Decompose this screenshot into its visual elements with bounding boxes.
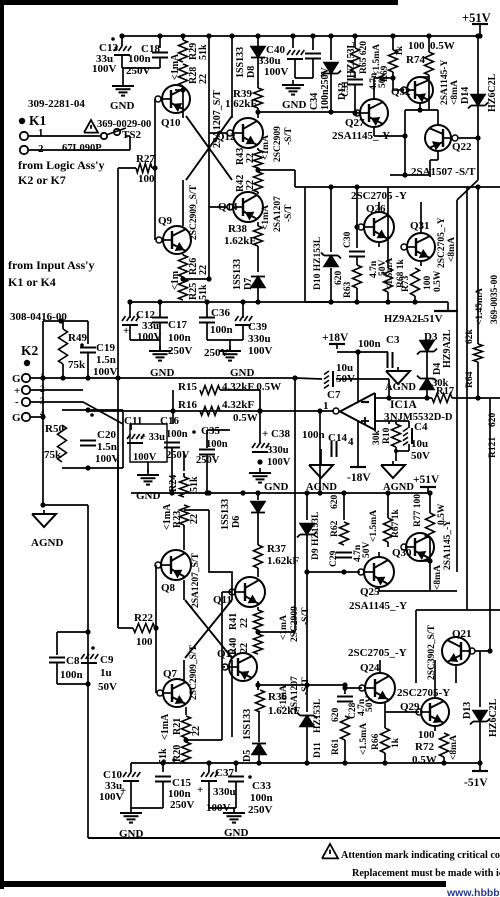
wire C16 down <box>171 448 173 493</box>
wire box bottom <box>305 301 448 303</box>
wire Q14 base <box>209 206 227 208</box>
wire R25 tap <box>183 278 209 280</box>
capacitor C8 <box>49 657 65 659</box>
wire Q32 emitter down <box>419 103 421 110</box>
attention mark triangle <box>322 844 338 858</box>
svg-text:+ 33u: + 33u <box>140 432 165 443</box>
wire X to Q9 col <box>182 180 184 226</box>
wire R74 bottom <box>428 75 430 77</box>
svg-text:100n: 100n <box>302 429 325 441</box>
wire K1 pin1 to TS2 <box>28 135 100 137</box>
resistor R15 <box>200 386 220 395</box>
svg-text:620: 620 <box>488 413 498 428</box>
svg-text:<1m: <1m <box>170 270 181 290</box>
svg-text:2SC2909_S/T: 2SC2909_S/T <box>189 184 199 240</box>
wire Q30 emitter node <box>420 560 430 562</box>
wire C19 top <box>87 321 89 344</box>
svg-text:50V: 50V <box>411 450 430 462</box>
wire C10/C15 join <box>131 807 163 809</box>
wire to GND <box>122 68 124 81</box>
wire +18V to C3 <box>337 351 388 353</box>
wire to C4 top <box>389 420 409 422</box>
svg-text:HZ9A2L: HZ9A2L <box>442 329 453 368</box>
transistor Q22 <box>425 125 451 151</box>
transistor Q31 <box>407 233 435 261</box>
wire box to -51V <box>447 302 449 310</box>
wire R74 to node <box>428 77 430 110</box>
resistor R49 <box>59 329 68 364</box>
svg-text:100V: 100V <box>264 66 289 78</box>
svg-text:2SC2705_-Y: 2SC2705_-Y <box>348 647 407 659</box>
wire Q27 down <box>373 127 375 136</box>
wire R39 to Q12 <box>257 108 259 118</box>
zener D11 HZ153L <box>297 713 317 727</box>
wire R24 top <box>183 473 185 477</box>
svg-text:2SC2705-Y: 2SC2705-Y <box>397 687 450 699</box>
svg-text:100n: 100n <box>210 324 233 336</box>
wire left vertical x43 <box>42 321 44 505</box>
capacitor C33 <box>228 776 244 778</box>
svg-text:67L090P: 67L090P <box>62 143 102 154</box>
capacitor C39 <box>235 316 252 325</box>
svg-text:2SC2705_-Y: 2SC2705_-Y <box>437 217 447 268</box>
transistor Q21 <box>442 637 470 665</box>
wire R37 to Q11 <box>257 568 259 577</box>
wire C34 top <box>312 36 314 50</box>
zener D14 <box>468 95 488 109</box>
svg-text:C34: C34 <box>309 93 320 110</box>
svg-text:GND: GND <box>224 827 249 839</box>
capacitor C37 <box>201 772 218 781</box>
svg-text:100n: 100n <box>128 53 151 65</box>
svg-text:250V: 250V <box>168 345 193 357</box>
svg-text:GND: GND <box>282 99 307 111</box>
resistor R22 <box>133 624 155 633</box>
wire R64 bottom <box>477 362 479 398</box>
wire bias vertical <box>208 36 210 279</box>
wire to R17 <box>389 397 432 399</box>
capacitor C36 <box>199 317 215 319</box>
svg-text:1: 1 <box>38 127 44 139</box>
wire D13 top <box>479 651 481 707</box>
svg-text:100V: 100V <box>267 457 291 468</box>
svg-text:22: 22 <box>239 643 250 653</box>
transistor Q10 <box>162 85 190 113</box>
capacitor C7 <box>324 371 333 388</box>
wire C10 top <box>130 763 132 772</box>
svg-text:Q26: Q26 <box>366 203 386 215</box>
resistor R41 <box>254 610 263 630</box>
svg-text:22: 22 <box>239 618 250 628</box>
wire R24 up <box>183 452 185 471</box>
wire Q31 collector <box>420 202 422 233</box>
wire X down <box>231 660 233 737</box>
capacitor C13 <box>114 46 131 55</box>
svg-text:100: 100 <box>408 40 425 52</box>
wire node Q32/Q22 <box>405 109 438 111</box>
wire cell4 top rail <box>258 684 345 686</box>
svg-text:D13: D13 <box>462 702 473 719</box>
base circle Q10 <box>155 96 161 102</box>
wire to x457 <box>430 590 457 592</box>
svg-text:22: 22 <box>198 265 209 275</box>
svg-text:Q8: Q8 <box>161 582 176 594</box>
svg-text:R64: R64 <box>465 371 475 388</box>
analog ground AGND R10 <box>381 461 405 478</box>
svg-text:22: 22 <box>245 153 256 163</box>
wire x209 down to X <box>209 510 232 600</box>
wire R77 top <box>429 493 431 513</box>
capacitor C30 <box>349 251 365 253</box>
ground below C12/C17 <box>149 346 171 361</box>
zener D9 HZ153L <box>297 524 317 538</box>
svg-text:Q7: Q7 <box>163 668 178 680</box>
wire C36/C39 join <box>207 339 243 341</box>
wire to Q22 collector <box>437 110 439 125</box>
svg-text:2SA1507 -S/T: 2SA1507 -S/T <box>411 166 476 178</box>
svg-text:R16: R16 <box>178 399 197 411</box>
resistor R16 <box>200 407 220 416</box>
svg-text:330u: 330u <box>267 445 289 456</box>
wire to GND 2 <box>229 340 231 350</box>
svg-text:GND: GND <box>119 828 144 840</box>
base circle Q11 <box>229 589 235 595</box>
svg-text:AGND: AGND <box>31 537 63 549</box>
svg-text:<8mA: <8mA <box>450 80 460 105</box>
terminal K1 pin2 <box>20 146 28 154</box>
wire C12/C17 join <box>130 339 160 341</box>
svg-text:Attention mark indicating crit: Attention mark indicating critical com <box>341 850 500 861</box>
svg-text:K1 or K4: K1 or K4 <box>8 275 56 289</box>
resistor R43 <box>254 150 263 168</box>
svg-text:R15: R15 <box>178 381 197 393</box>
wire Q31 emitter <box>420 261 422 266</box>
wire R10 bottom <box>395 447 397 451</box>
wire C40 top <box>292 36 294 48</box>
svg-text:C29: C29 <box>329 550 339 567</box>
wire C13 top <box>121 36 123 46</box>
wire Q24 emitter to R66 <box>384 703 386 728</box>
svg-text:4.32kF: 4.32kF <box>222 399 254 411</box>
wire TS2 out <box>129 136 131 150</box>
svg-text:+ C38: + C38 <box>262 428 290 440</box>
svg-text:R73: R73 <box>401 275 411 292</box>
svg-text:C9: C9 <box>100 654 114 666</box>
wire D12 top <box>330 36 332 60</box>
wire R27 left <box>118 167 136 169</box>
svg-text:K2: K2 <box>21 343 39 358</box>
wire D4 to out line <box>426 390 428 398</box>
wire Q29 emitter <box>434 726 436 731</box>
svg-text:TS2: TS2 <box>122 129 141 141</box>
diode D14 HZ6C2L <box>477 36 479 94</box>
transistor Q27 <box>360 99 388 127</box>
capacitor C20 <box>80 440 96 442</box>
wire output to right <box>452 397 500 399</box>
zener D10 HZ153L <box>321 253 341 267</box>
svg-text:100n: 100n <box>206 439 228 450</box>
svg-text:HZ9A2L: HZ9A2L <box>384 314 424 325</box>
power -18V <box>350 466 366 468</box>
resistor R26 <box>179 255 188 277</box>
capacitor C38 <box>252 443 269 452</box>
base circle Q26 <box>358 224 364 230</box>
wire C31 to Q27 <box>355 112 360 114</box>
wire R72 bottom <box>443 757 445 763</box>
svg-text:C11: C11 <box>124 415 142 427</box>
node +51V rail right <box>477 33 482 38</box>
wire D10 top <box>330 187 332 252</box>
svg-text:C35: C35 <box>201 425 220 437</box>
wire Q27 emitter right <box>374 135 405 137</box>
capacitor C31 <box>347 79 363 81</box>
svg-text:22: 22 <box>245 180 256 190</box>
wire Q21 box left <box>415 610 417 683</box>
svg-text:Q25: Q25 <box>360 586 380 598</box>
wire - in <box>30 401 70 403</box>
svg-text:75k: 75k <box>44 449 62 461</box>
wire to lower rail <box>319 411 321 493</box>
resistor R24 <box>180 477 189 497</box>
label plus <box>361 420 369 422</box>
wire R67 to Q30 base <box>387 542 389 547</box>
capacitor C18 <box>152 52 168 54</box>
switch contact 2 <box>114 129 120 135</box>
wire Q11 base left <box>222 591 232 593</box>
svg-text:2SA1145_-Y: 2SA1145_-Y <box>349 600 407 612</box>
svg-text:100n: 100n <box>358 338 381 350</box>
svg-text:D5: D5 <box>242 750 253 762</box>
wire Q25 emitter down <box>379 587 430 591</box>
base circle Q27 <box>354 110 360 116</box>
wire R68 <box>387 247 389 268</box>
resistor R69 <box>389 50 398 72</box>
svg-text:100: 100 <box>136 636 153 648</box>
wire vertical x457 <box>456 200 458 572</box>
svg-text:51k: 51k <box>198 44 209 60</box>
wire Q25 collector <box>378 552 380 557</box>
svg-text:10u: 10u <box>411 438 428 450</box>
base circle Q8 <box>155 562 161 568</box>
svg-text:-S/T: -S/T <box>301 607 311 625</box>
wire R15 box left <box>172 390 174 411</box>
wire R10/C4 bottom <box>396 450 409 452</box>
transistor Q29 <box>421 698 449 726</box>
capacitor C40 <box>287 50 304 59</box>
svg-text:2SA1207: 2SA1207 <box>273 196 283 232</box>
wire C35 top <box>206 430 208 448</box>
base circle Q30 <box>401 544 407 550</box>
wire + in <box>30 389 83 391</box>
svg-text:51k: 51k <box>198 284 209 300</box>
wire bottom rail left <box>131 762 259 764</box>
svg-text:2SA1145_-Y: 2SA1145_-Y <box>443 520 453 570</box>
base circle Q24 <box>359 685 365 691</box>
terminal K2 G2 <box>22 413 30 421</box>
diode D6 1SS133 <box>251 502 265 513</box>
wire C12 box left <box>129 302 131 318</box>
svg-text:2SC2909: 2SC2909 <box>273 126 283 162</box>
wire Q21 box top <box>416 609 500 611</box>
wire Q12 node to Q27 base <box>258 111 355 113</box>
svg-text:R40: R40 <box>228 638 239 655</box>
analog ground AGND left <box>32 510 56 527</box>
svg-text:D9 HZ153L: D9 HZ153L <box>311 512 321 560</box>
svg-text:100n: 100n <box>168 332 191 344</box>
svg-text:C30: C30 <box>343 231 353 248</box>
svg-text:G: G <box>12 412 21 424</box>
transistor Q32 <box>407 77 433 103</box>
wire C7 to inv node <box>336 378 389 380</box>
svg-text:2SC2909: 2SC2909 <box>290 606 300 642</box>
svg-text:<1.5mA: <1.5mA <box>359 723 369 755</box>
wire R74 top <box>428 36 430 52</box>
wire D6 top <box>257 493 259 500</box>
power +18V <box>329 344 345 349</box>
diode D5 1SS133 <box>252 744 266 755</box>
svg-text:4.32kF 0.5W: 4.32kF 0.5W <box>222 381 281 393</box>
svg-text:100n: 100n <box>250 792 273 804</box>
wire base column x155 <box>154 99 156 240</box>
wire Q8 to X <box>183 580 185 600</box>
svg-text:R63: R63 <box>343 281 353 298</box>
svg-text:100n: 100n <box>60 669 83 681</box>
zener D12 HZ153L <box>321 63 341 77</box>
svg-text:+51V: +51V <box>413 474 440 486</box>
svg-text:75k: 75k <box>68 359 86 371</box>
svg-text:2SC2705 -Y: 2SC2705 -Y <box>351 190 407 202</box>
diode D8 1SS133 <box>251 47 265 58</box>
svg-text:620: 620 <box>331 708 341 723</box>
svg-text:-51V: -51V <box>420 313 443 325</box>
svg-text:R66: R66 <box>371 733 381 750</box>
svg-text:G: G <box>12 373 21 385</box>
svg-text:C8: C8 <box>66 655 80 667</box>
svg-text:Q10: Q10 <box>161 117 181 129</box>
wire to R10 <box>388 421 390 424</box>
ground below C40 <box>282 80 304 95</box>
wire to Q25 base node <box>307 571 344 573</box>
svg-text:<1mA: <1mA <box>279 615 289 640</box>
wire R62 top <box>343 493 345 520</box>
resistor R65 <box>351 48 360 72</box>
capacitor C3 <box>387 352 389 368</box>
svg-text:R77 100: R77 100 <box>413 494 423 527</box>
resistor R23 <box>180 505 189 525</box>
resistor R67 <box>384 518 393 542</box>
wire D5 bottom <box>258 755 260 763</box>
svg-text:R38: R38 <box>228 223 247 235</box>
transistor Q25 <box>364 557 394 587</box>
base circle Q29 <box>416 709 422 715</box>
svg-text:1.5n: 1.5n <box>97 441 117 453</box>
svg-text:100V: 100V <box>95 453 120 465</box>
svg-text:250V: 250V <box>126 65 151 77</box>
wire Q11 node to x295 <box>258 631 295 633</box>
wire Q24 collector up <box>379 660 381 673</box>
wire C30 top <box>356 187 358 248</box>
svg-text:Q27: Q27 <box>345 117 365 129</box>
svg-text:R41: R41 <box>228 613 239 630</box>
svg-text:100n: 100n <box>166 429 188 440</box>
svg-text:HZ6C2L: HZ6C2L <box>487 73 498 112</box>
base circle Q14 <box>227 204 233 210</box>
diode D7 1SS133 <box>251 277 265 288</box>
resistor R66 <box>381 728 390 753</box>
svg-text:C16: C16 <box>160 415 179 427</box>
svg-text:100: 100 <box>418 729 435 741</box>
transistor Q8 <box>161 550 191 580</box>
wire Q22 base right <box>458 137 478 139</box>
transistor Q24 <box>365 673 395 703</box>
svg-text:C4: C4 <box>414 421 428 433</box>
wire D9 top <box>306 493 308 520</box>
resistor R68 <box>384 268 393 292</box>
svg-text:-S/T: -S/T <box>284 204 294 222</box>
resistor R28 <box>179 64 188 86</box>
svg-text:<1mA: <1mA <box>170 53 181 80</box>
resistor R77 <box>426 513 435 538</box>
wire Q27 top rail <box>374 77 393 79</box>
box driver cell 2SC2705-Y <box>304 187 306 302</box>
svg-text:R69: R69 <box>380 65 390 82</box>
resistor R10 <box>392 424 401 447</box>
svg-text:Q21: Q21 <box>452 628 472 640</box>
wire to +51V <box>479 24 481 36</box>
wire R68 top <box>387 187 389 240</box>
power +51V cell3 <box>420 487 436 493</box>
wire C37 top <box>208 763 210 772</box>
svg-text:R22: R22 <box>134 612 153 624</box>
wire Q12 base <box>209 132 227 134</box>
resistor R27 <box>136 164 152 173</box>
wire inv input <box>375 397 389 399</box>
resistor R17 <box>432 394 452 403</box>
svg-text:1.62kF: 1.62kF <box>225 98 257 110</box>
analog ground AGND C14 <box>309 461 333 478</box>
resistor R37 <box>254 545 263 568</box>
wire C35 top <box>207 429 230 431</box>
wire R50 box top <box>62 409 123 411</box>
wire x118 vertical <box>117 460 119 625</box>
wire X to Q7 <box>183 660 185 680</box>
svg-text:250V: 250V <box>166 450 190 461</box>
svg-text:D10 HZ153L: D10 HZ153L <box>313 237 323 290</box>
wire R73 bottom <box>414 296 416 302</box>
wire C35 down <box>206 455 208 493</box>
wire C17 box right <box>159 302 161 317</box>
capacitor C14 <box>331 441 333 457</box>
wire D12 bottom <box>330 74 332 112</box>
wire C15 top <box>162 763 164 772</box>
capacitor C4 <box>403 428 412 445</box>
wire tap <box>184 509 209 511</box>
wire x405 vertical <box>404 110 406 175</box>
svg-text:2: 2 <box>38 143 44 155</box>
capacitor C15 <box>155 776 171 778</box>
transistor Q9 <box>163 226 191 254</box>
svg-text:C19: C19 <box>96 342 115 354</box>
svg-text:D8: D8 <box>246 66 257 78</box>
svg-text:R62: R62 <box>330 520 340 537</box>
wire V- pin4 <box>357 420 359 467</box>
svg-text:100: 100 <box>138 173 155 185</box>
wire C11 gnd <box>147 462 149 472</box>
wire output feedback line <box>88 410 334 412</box>
switch lever <box>106 128 126 135</box>
svg-text:-18V: -18V <box>347 472 371 484</box>
ground below C38 <box>249 468 271 483</box>
